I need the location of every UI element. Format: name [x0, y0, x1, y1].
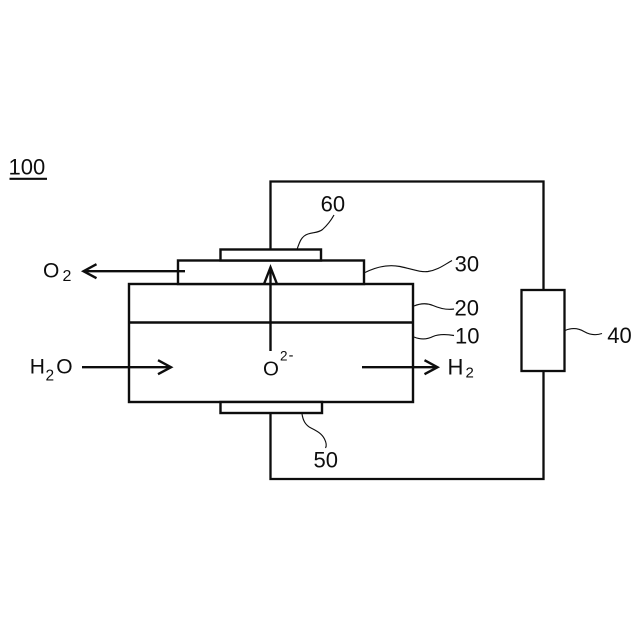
svg-text:40: 40	[607, 323, 631, 348]
svg-text:O: O	[43, 259, 59, 282]
svg-text:60: 60	[321, 191, 345, 216]
svg-text:2: 2	[280, 348, 288, 363]
svg-text:2: 2	[63, 268, 72, 285]
svg-text:2: 2	[466, 365, 474, 382]
svg-text:2: 2	[46, 368, 55, 385]
svg-text:20: 20	[455, 296, 479, 321]
svg-text:O: O	[56, 356, 72, 379]
svg-text:30: 30	[455, 252, 479, 277]
svg-text:H: H	[448, 354, 464, 379]
svg-text:-: -	[289, 348, 294, 364]
svg-text:O: O	[263, 357, 279, 380]
svg-text:H: H	[30, 355, 45, 378]
svg-text:100: 100	[9, 155, 46, 180]
svg-text:50: 50	[314, 448, 338, 473]
svg-text:10: 10	[455, 324, 479, 349]
